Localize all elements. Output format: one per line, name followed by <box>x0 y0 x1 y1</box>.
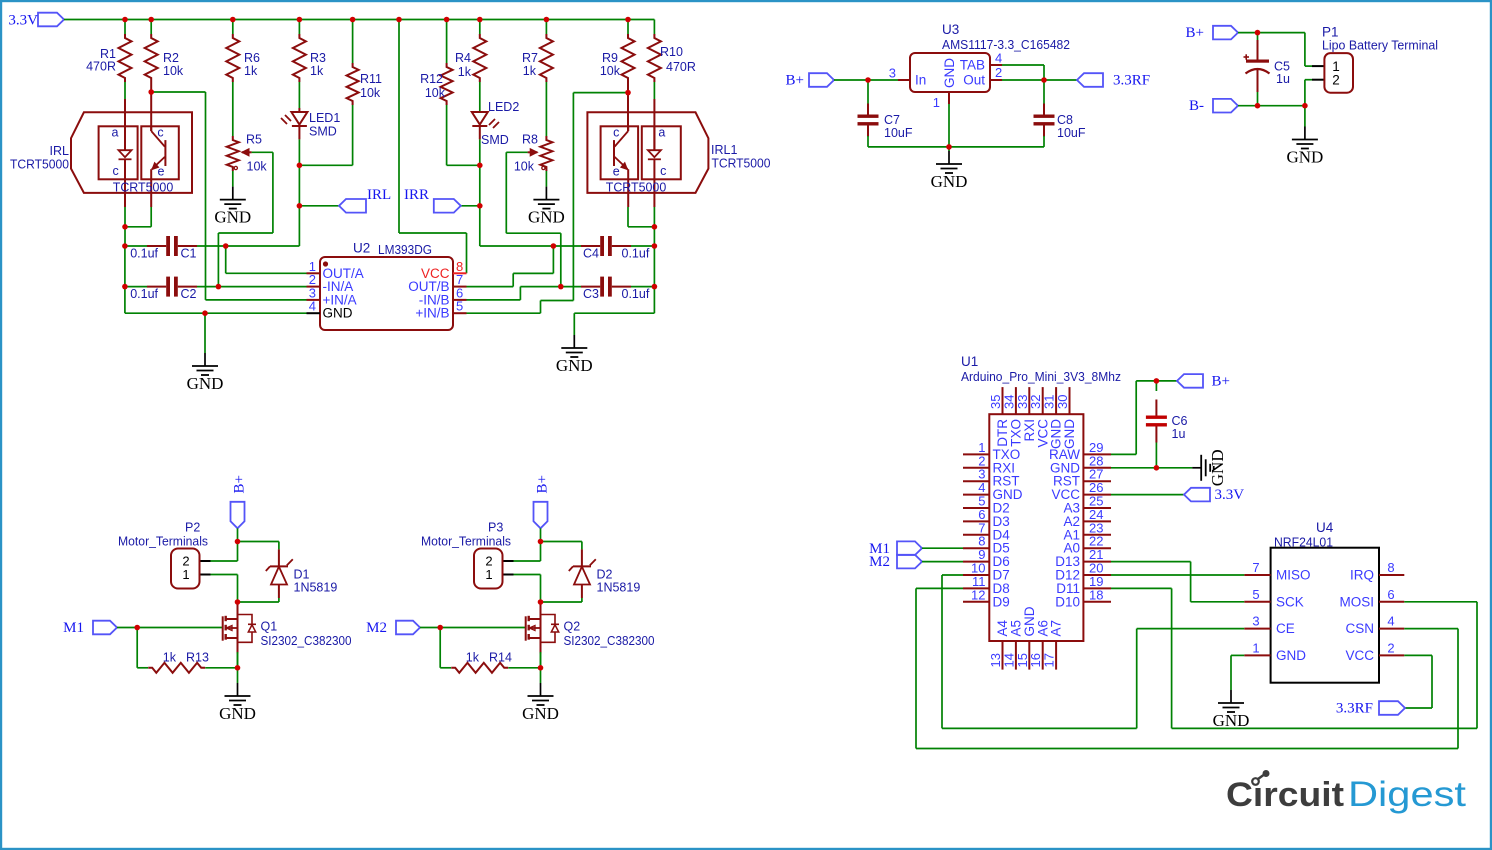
svg-text:C8: C8 <box>1057 113 1073 127</box>
svg-text:Motor_Terminals: Motor_Terminals <box>421 535 511 549</box>
svg-text:c: c <box>660 164 666 178</box>
svg-text:GND: GND <box>214 208 251 227</box>
svg-text:R13: R13 <box>186 651 209 665</box>
svg-text:10k: 10k <box>425 86 446 100</box>
svg-text:1u: 1u <box>1276 72 1290 86</box>
svg-text:10k: 10k <box>600 64 621 78</box>
svg-text:D10: D10 <box>1055 594 1080 609</box>
svg-text:R14: R14 <box>489 651 512 665</box>
svg-text:1: 1 <box>182 567 189 582</box>
svg-text:GND: GND <box>556 356 593 375</box>
svg-text:1: 1 <box>485 567 492 582</box>
svg-text:12: 12 <box>971 587 985 602</box>
svg-text:C4: C4 <box>583 247 599 261</box>
svg-text:GND: GND <box>219 704 256 723</box>
svg-text:+IN/B: +IN/B <box>415 306 449 321</box>
svg-text:GND: GND <box>931 172 968 191</box>
svg-text:R2: R2 <box>163 51 179 65</box>
svg-text:GND: GND <box>1213 711 1250 730</box>
svg-text:TCRT5000: TCRT5000 <box>10 158 69 172</box>
svg-text:IRL: IRL <box>367 187 391 203</box>
svg-text:4: 4 <box>1387 614 1394 629</box>
svg-text:3.3V: 3.3V <box>1215 487 1245 503</box>
svg-text:AMS1117-3.3_C165482: AMS1117-3.3_C165482 <box>942 37 1070 52</box>
svg-text:Lipo Battery Terminal: Lipo Battery Terminal <box>1322 38 1438 53</box>
svg-text:SI2302_C382300: SI2302_C382300 <box>564 634 655 648</box>
svg-text:D1: D1 <box>294 568 310 582</box>
svg-text:3: 3 <box>1252 614 1259 629</box>
svg-text:1k: 1k <box>466 651 480 665</box>
svg-text:C3: C3 <box>583 287 599 301</box>
svg-text:Q2: Q2 <box>564 620 581 634</box>
svg-text:IRL: IRL <box>50 144 70 158</box>
svg-text:MOSI: MOSI <box>1339 594 1374 609</box>
svg-text:1: 1 <box>1252 640 1259 655</box>
svg-text:2: 2 <box>1332 73 1340 88</box>
svg-text:1u: 1u <box>1172 427 1186 441</box>
svg-text:M2: M2 <box>869 554 890 570</box>
svg-text:CE: CE <box>1276 621 1295 636</box>
svg-text:B+: B+ <box>535 475 551 493</box>
svg-text:3.3V: 3.3V <box>8 12 38 28</box>
svg-text:SCK: SCK <box>1276 594 1304 609</box>
svg-text:GND: GND <box>1276 648 1306 663</box>
svg-text:LED1: LED1 <box>309 111 340 125</box>
svg-text:0.1uf: 0.1uf <box>622 247 650 261</box>
svg-text:R4: R4 <box>455 51 471 65</box>
svg-text:0.1uf: 0.1uf <box>622 287 650 301</box>
svg-text:P2: P2 <box>185 521 200 535</box>
svg-text:Digest: Digest <box>1348 775 1466 814</box>
svg-text:LED2: LED2 <box>488 100 519 114</box>
svg-text:c: c <box>112 164 118 178</box>
svg-text:GND: GND <box>1062 419 1077 449</box>
svg-text:a: a <box>658 126 665 140</box>
svg-text:10k: 10k <box>247 160 268 174</box>
svg-text:4: 4 <box>995 51 1002 66</box>
svg-text:1N5819: 1N5819 <box>597 581 641 595</box>
svg-text:10k: 10k <box>163 64 184 78</box>
svg-text:17: 17 <box>1042 653 1057 667</box>
svg-text:IRQ: IRQ <box>1350 568 1374 583</box>
svg-text:TCRT5000: TCRT5000 <box>712 157 771 171</box>
svg-text:3.3RF: 3.3RF <box>1113 73 1150 89</box>
svg-text:U4: U4 <box>1316 520 1334 535</box>
svg-text:1k: 1k <box>163 651 177 665</box>
svg-text:2: 2 <box>1387 640 1394 655</box>
svg-text:6: 6 <box>1387 587 1394 602</box>
svg-text:Q1: Q1 <box>261 620 278 634</box>
svg-text:1N5819: 1N5819 <box>294 581 338 595</box>
svg-text:Motor_Terminals: Motor_Terminals <box>118 535 208 549</box>
svg-text:GND: GND <box>323 306 353 321</box>
svg-text:10k: 10k <box>514 160 535 174</box>
svg-text:D9: D9 <box>993 594 1010 609</box>
svg-text:10k: 10k <box>360 86 381 100</box>
svg-text:1k: 1k <box>523 64 537 78</box>
svg-text:2: 2 <box>995 65 1002 80</box>
svg-text:18: 18 <box>1089 587 1103 602</box>
svg-text:R8: R8 <box>522 133 538 147</box>
svg-text:D2: D2 <box>597 568 613 582</box>
svg-text:NRF24L01: NRF24L01 <box>1274 534 1333 549</box>
svg-text:GND: GND <box>522 704 559 723</box>
svg-text:R10: R10 <box>660 45 683 59</box>
svg-text:3.3RF: 3.3RF <box>1336 701 1373 717</box>
svg-text:8: 8 <box>1387 560 1394 575</box>
svg-text:R6: R6 <box>244 51 260 65</box>
svg-text:1k: 1k <box>458 65 472 79</box>
svg-text:In: In <box>915 73 926 88</box>
svg-text:GND: GND <box>942 58 957 88</box>
svg-text:R5: R5 <box>246 133 262 147</box>
svg-text:A7: A7 <box>1049 620 1064 637</box>
svg-text:R3: R3 <box>310 51 326 65</box>
svg-text:1k: 1k <box>244 64 258 78</box>
svg-text:C2: C2 <box>181 287 197 301</box>
svg-text:U2: U2 <box>353 240 370 255</box>
svg-text:GND: GND <box>1286 148 1323 167</box>
svg-text:LM393DG: LM393DG <box>378 242 432 257</box>
svg-text:U3: U3 <box>942 22 959 37</box>
svg-text:TAB: TAB <box>960 58 985 73</box>
svg-text:4: 4 <box>309 299 316 314</box>
svg-text:B-: B- <box>1189 98 1204 114</box>
svg-text:5: 5 <box>1252 587 1259 602</box>
svg-text:R11: R11 <box>360 72 382 86</box>
svg-text:1: 1 <box>933 95 940 110</box>
svg-text:IRL1: IRL1 <box>711 143 737 157</box>
svg-text:Circuit: Circuit <box>1226 776 1344 814</box>
svg-text:SMD: SMD <box>309 125 337 139</box>
svg-text:R9: R9 <box>602 51 618 65</box>
svg-text:C6: C6 <box>1172 414 1188 428</box>
svg-text:Arduino_Pro_Mini_3V3_8Mhz: Arduino_Pro_Mini_3V3_8Mhz <box>961 369 1121 384</box>
svg-text:GND: GND <box>1208 449 1227 486</box>
svg-text:P3: P3 <box>488 521 503 535</box>
svg-text:1k: 1k <box>310 64 324 78</box>
svg-text:R7: R7 <box>522 51 538 65</box>
svg-text:C7: C7 <box>884 113 900 127</box>
svg-text:Out: Out <box>963 73 985 88</box>
svg-text:B+: B+ <box>786 73 804 89</box>
svg-text:B+: B+ <box>1186 25 1204 41</box>
svg-text:c: c <box>613 125 619 139</box>
svg-text:TCRT5000: TCRT5000 <box>113 181 174 195</box>
svg-text:3: 3 <box>889 66 896 81</box>
svg-text:0.1uf: 0.1uf <box>130 287 158 301</box>
svg-text:MISO: MISO <box>1276 568 1311 583</box>
svg-text:0.1uf: 0.1uf <box>130 247 158 261</box>
svg-text:R12: R12 <box>420 72 443 86</box>
svg-text:7: 7 <box>1252 560 1259 575</box>
svg-text:e: e <box>158 165 165 179</box>
svg-text:a: a <box>112 126 119 140</box>
svg-text:B+: B+ <box>1212 374 1230 390</box>
svg-text:e: e <box>613 165 620 179</box>
svg-text:10uF: 10uF <box>1057 126 1086 140</box>
svg-text:30: 30 <box>1055 395 1070 409</box>
svg-text:U1: U1 <box>961 354 978 369</box>
svg-text:TCRT5000: TCRT5000 <box>606 181 667 195</box>
svg-text:M1: M1 <box>63 620 84 636</box>
svg-text:IRR: IRR <box>404 187 429 203</box>
svg-text:GND: GND <box>187 374 224 393</box>
svg-text:C1: C1 <box>181 247 197 261</box>
svg-text:CSN: CSN <box>1345 621 1374 636</box>
svg-text:10uF: 10uF <box>884 126 913 140</box>
svg-text:VCC: VCC <box>1345 648 1374 663</box>
svg-text:GND: GND <box>528 208 565 227</box>
svg-text:SMD: SMD <box>481 133 509 147</box>
svg-text:M2: M2 <box>366 620 387 636</box>
svg-text:470R: 470R <box>666 60 696 74</box>
svg-text:470R: 470R <box>86 60 116 74</box>
svg-text:SI2302_C382300: SI2302_C382300 <box>261 634 352 648</box>
svg-text:B+: B+ <box>232 475 248 493</box>
svg-text:5: 5 <box>456 299 463 314</box>
svg-text:c: c <box>157 125 163 139</box>
